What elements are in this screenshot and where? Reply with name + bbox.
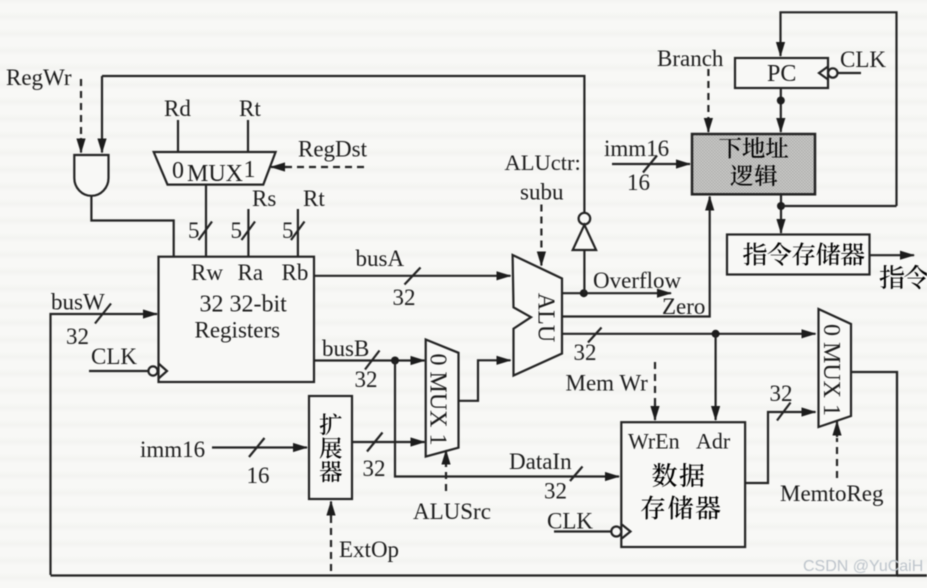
wire: busB down to DataIn <box>395 361 619 477</box>
wire: ALU result bus, 32 bits <box>562 333 816 335</box>
wire: Branch dashed control <box>707 69 709 118</box>
svg-text:imm16: imm16 <box>604 136 669 161</box>
junction: PC out node <box>777 97 785 105</box>
svg-text:32: 32 <box>355 367 378 392</box>
wire: busB to mux M2 <box>314 359 425 361</box>
wire: busA to ALU <box>314 275 511 277</box>
wire: instruction output <box>870 254 915 256</box>
label instruction out CJK <box>880 265 904 289</box>
svg-text:16: 16 <box>247 463 270 488</box>
svg-text:Rw: Rw <box>191 260 223 285</box>
svg-text:MUX: MUX <box>187 161 243 187</box>
svg-text:32: 32 <box>393 285 416 310</box>
svg-text:ExtOp: ExtOp <box>339 537 399 562</box>
wire: Overflow output <box>562 292 671 294</box>
wire: imm16 into extender, 16 bits <box>212 446 307 448</box>
svg-text:RegDst: RegDst <box>298 137 368 162</box>
wire: MemtoReg dashed control <box>836 438 838 478</box>
svg-text:ALUctr:: ALUctr: <box>505 150 581 175</box>
instruction memory block <box>727 235 870 275</box>
wire: memory data out to mux M3, 32 bits <box>745 412 816 483</box>
wire: next address loop into PC <box>781 12 897 206</box>
junction: result node <box>712 330 720 338</box>
clock input data memory <box>554 530 611 532</box>
junction: busB node <box>391 357 399 365</box>
svg-text:imm16: imm16 <box>140 437 205 462</box>
svg-text:Rs: Rs <box>252 186 276 211</box>
wire: mux M2 output to ALU <box>459 360 511 401</box>
svg-text:Registers: Registers <box>195 318 281 343</box>
svg-text:32: 32 <box>363 456 386 481</box>
svg-text:MemtoReg: MemtoReg <box>780 481 884 506</box>
svg-text:5: 5 <box>231 218 243 243</box>
svg-text:CLK: CLK <box>547 509 593 534</box>
registers block: 32 32-bit Registers <box>159 257 315 382</box>
wire: Rs input, 5 bits <box>247 209 249 256</box>
svg-text:32: 32 <box>66 324 89 349</box>
junction: next-address node <box>777 202 785 210</box>
svg-text:CLK: CLK <box>840 47 886 72</box>
svg-text:0 MUX 1: 0 MUX 1 <box>425 353 451 445</box>
svg-text:0: 0 <box>172 158 184 184</box>
svg-text:CSDN @YuCaiH: CSDN @YuCaiH <box>803 558 923 575</box>
svg-text:32: 32 <box>770 381 793 406</box>
wire: mux M3 output via busW return <box>51 372 898 576</box>
mux M1 RegDst <box>154 152 276 185</box>
svg-text:CLK: CLK <box>91 344 137 369</box>
label next-address CJK <box>719 137 741 158</box>
wire: Mem Wr dashed control <box>654 362 656 405</box>
label data memory CJK <box>652 463 677 487</box>
svg-text:RegWr: RegWr <box>6 65 72 90</box>
svg-text:busW: busW <box>51 290 105 315</box>
next-address logic block (shaded) <box>692 134 815 194</box>
svg-text:5: 5 <box>188 218 200 243</box>
svg-text:32 32-bit: 32 32-bit <box>200 292 288 318</box>
wire: Zero output to next-address logic <box>562 197 710 317</box>
extender block <box>309 396 352 499</box>
svg-text:Overflow: Overflow <box>593 268 682 293</box>
pc register <box>735 58 828 88</box>
svg-text:Zero: Zero <box>662 294 705 319</box>
clock input registers <box>89 370 148 372</box>
data memory block <box>621 422 745 547</box>
wire: NOT-Overflow feedback top wire <box>102 76 584 212</box>
wire: top wire drop into AND gate <box>101 76 103 153</box>
svg-text:DataIn: DataIn <box>509 449 572 474</box>
svg-text:busA: busA <box>356 246 405 271</box>
clock input PC <box>838 72 862 74</box>
svg-text:Branch: Branch <box>657 46 724 71</box>
label extender CJK <box>320 413 342 435</box>
svg-text:32: 32 <box>544 479 567 504</box>
wire: PC to next-address logic <box>780 88 782 132</box>
junction: overflow node <box>580 289 588 297</box>
wire: Rd into mux <box>177 120 179 151</box>
svg-text:subu: subu <box>520 180 564 205</box>
wire: next-address out to instruction memory <box>780 194 782 233</box>
mux M2 ALUSrc <box>426 340 459 457</box>
and-gate U1 <box>74 155 108 196</box>
svg-text:PC: PC <box>767 61 796 87</box>
wire: Rt into mux <box>247 120 249 151</box>
svg-text:Ra: Ra <box>238 260 264 285</box>
svg-text:busB: busB <box>322 336 369 361</box>
wire: AND output to Rw write-enable <box>91 196 173 256</box>
wire: next-address loop right side <box>781 205 897 207</box>
alu U2 <box>513 255 562 376</box>
wire: ExtOp dashed control <box>330 515 332 571</box>
svg-text:0 MUX 1: 0 MUX 1 <box>818 324 844 416</box>
svg-text:32: 32 <box>574 340 597 365</box>
wire: ALUctr dashed control <box>540 205 542 254</box>
inverter U3 <box>583 250 585 293</box>
svg-text:ALUSrc: ALUSrc <box>413 499 491 524</box>
svg-text:16: 16 <box>627 170 650 195</box>
wire: mux M1 output to Rw, 5 bits <box>205 185 207 256</box>
svg-text:Rb: Rb <box>282 260 309 285</box>
svg-text:Rd: Rd <box>164 96 191 121</box>
svg-text:ALU: ALU <box>533 293 559 342</box>
svg-text:5: 5 <box>282 218 294 243</box>
svg-text:Adr: Adr <box>696 429 731 454</box>
svg-text:Rt: Rt <box>239 96 261 121</box>
svg-text:WrEn: WrEn <box>628 429 680 454</box>
wire: busW into Registers <box>51 314 158 575</box>
svg-text:1: 1 <box>244 157 256 183</box>
label instruction memory CJK <box>743 242 766 265</box>
wire: result down to Adr <box>714 334 716 420</box>
wire: RegWr dashed control <box>80 79 82 140</box>
wire: extender output to mux M2, 32 bits <box>352 441 425 443</box>
wire: Rt input, 5 bits <box>297 209 299 256</box>
wire: ALUSrc dashed control <box>445 466 447 491</box>
wire: imm16 into next-address, 16 bits <box>612 163 690 165</box>
wire: RegDst dashed control <box>285 166 364 168</box>
frame bottom border <box>897 574 927 577</box>
svg-text:Mem Wr: Mem Wr <box>566 371 649 396</box>
svg-text:Rt: Rt <box>303 186 325 211</box>
mux M3 MemtoReg <box>819 309 852 427</box>
